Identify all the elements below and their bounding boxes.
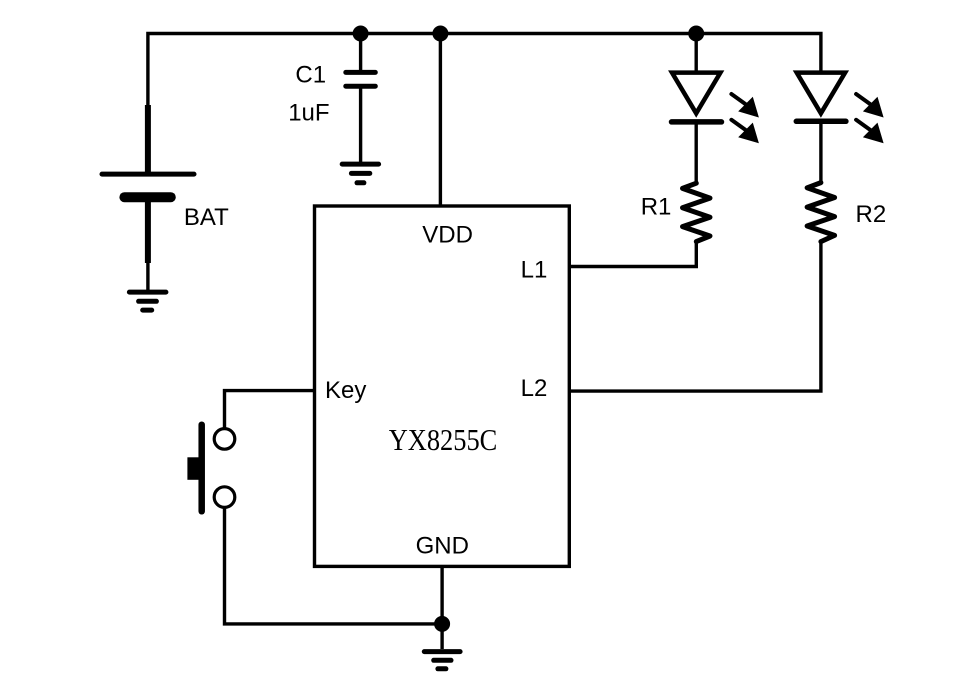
svg-text:Key: Key (325, 377, 366, 404)
svg-text:R2: R2 (856, 201, 887, 228)
svg-text:L1: L1 (521, 257, 548, 284)
svg-text:C1: C1 (295, 62, 326, 89)
svg-text:YX8255C: YX8255C (389, 422, 498, 457)
svg-text:L2: L2 (521, 375, 548, 402)
svg-text:BAT: BAT (184, 204, 229, 231)
svg-text:R1: R1 (641, 194, 672, 221)
svg-text:GND: GND (416, 533, 469, 560)
svg-text:VDD: VDD (422, 222, 473, 249)
svg-text:1uF: 1uF (288, 99, 329, 126)
